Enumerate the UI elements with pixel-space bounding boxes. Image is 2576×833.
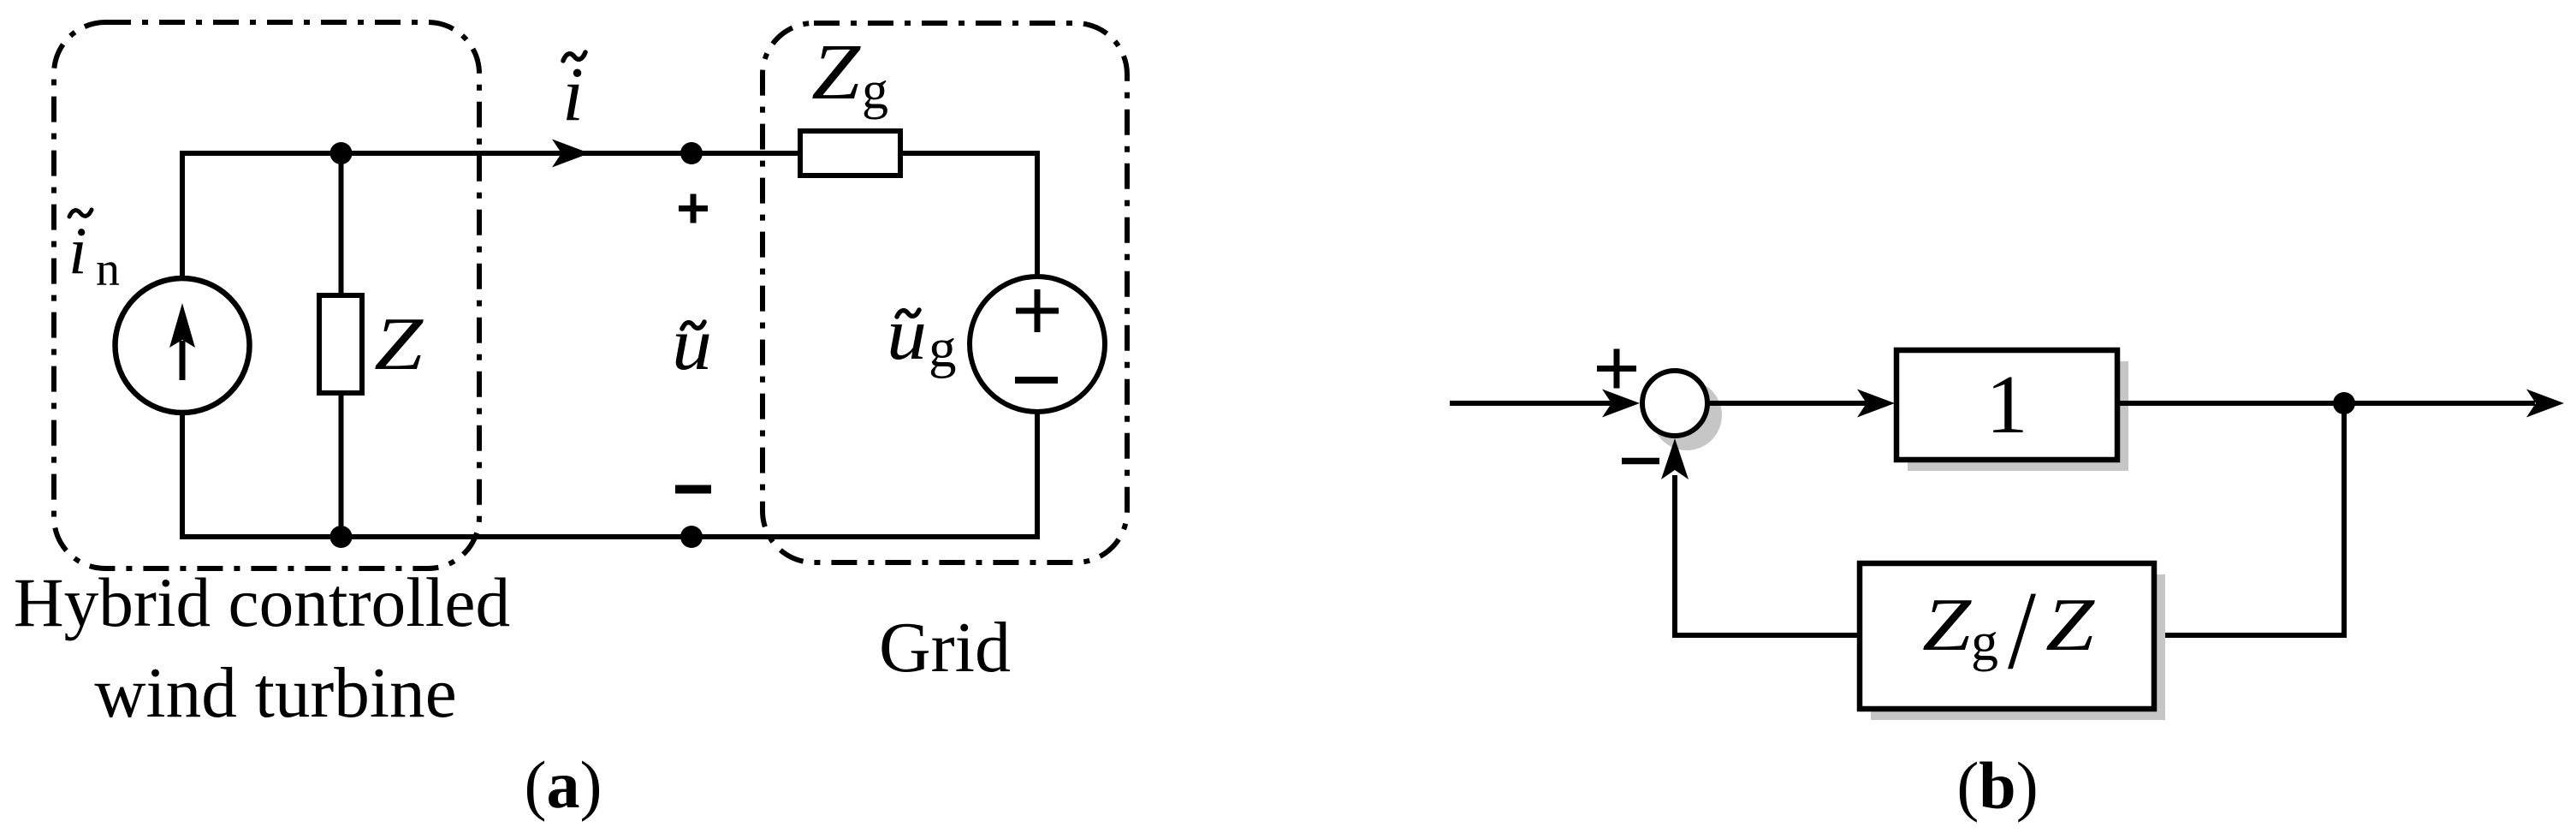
svg-text:(b): (b) [1956, 748, 2038, 823]
voltage source ug circle [970, 277, 1105, 412]
svg-text:Z: Z [811, 28, 861, 116]
wire: Z branch lower [339, 393, 344, 537]
current source inner arrow [180, 341, 186, 380]
svg-text:Z: Z [1922, 584, 1972, 667]
block 1 shadow [1908, 361, 2128, 471]
wire: Zg resistor to grid corner down to source top [900, 153, 1037, 277]
svg-text:1: 1 [1986, 359, 2028, 451]
svg-text:Z: Z [374, 303, 424, 386]
plus inside ug source [1016, 289, 1059, 332]
plus at summing junction [1597, 349, 1636, 389]
svg-text:/: / [2008, 568, 2037, 693]
svg-text:i: i [68, 213, 87, 288]
wire: node down and to feedback block [2154, 403, 2344, 635]
block 1 [1896, 350, 2117, 460]
summing junction circle [1642, 371, 1707, 436]
feedback block shadow [1871, 574, 2165, 720]
svg-text:u: u [672, 303, 712, 386]
resistor Z [319, 295, 362, 393]
summing junction shadow [1652, 380, 1722, 450]
svg-text:g: g [862, 62, 888, 120]
svg-text:g: g [1971, 611, 1998, 672]
node dot: top Z junction [330, 142, 353, 164]
wire: input to summing junction [1450, 401, 1617, 406]
svg-text:u: u [887, 292, 927, 375]
current source In circle [116, 278, 250, 413]
svg-text:(a): (a) [525, 747, 602, 822]
wire: feedback block to summing junction [1675, 475, 1860, 635]
wire: summing junction to block 1 [1707, 401, 1874, 406]
svg-text:n: n [96, 243, 120, 296]
node dot: bottom Z junction [330, 526, 353, 548]
wire: Z branch upper [339, 153, 344, 295]
node dot: bottom u- node [680, 526, 703, 548]
enclosure box: grid (dash-dot) [763, 23, 1127, 562]
wire: block 1 to output [2117, 401, 2535, 406]
svg-text:wind turbine: wind turbine [94, 654, 456, 733]
minus at summing junction [1622, 458, 1659, 465]
wire: left branch up + top wire to Zg resistor [182, 153, 800, 277]
node dot on output [2333, 392, 2355, 414]
feedback block Zg/Z [1860, 563, 2154, 709]
resistor Zg [800, 131, 900, 176]
label - at node [675, 485, 711, 494]
svg-text:Z: Z [2045, 584, 2095, 667]
svg-text:i: i [562, 52, 584, 137]
label + at node [679, 194, 708, 223]
wire: bottom wire [182, 412, 1037, 537]
node dot: top u+ node [680, 142, 703, 164]
svg-text:Hybrid controlled: Hybrid controlled [14, 564, 510, 641]
svg-text:g: g [929, 318, 957, 379]
current arrow on top wire (i) [552, 140, 590, 168]
enclosure box: hybrid controlled wind turbine (dash-dot) [54, 22, 479, 568]
minus inside ug source [1015, 377, 1058, 384]
svg-text:Grid: Grid [879, 608, 1011, 687]
